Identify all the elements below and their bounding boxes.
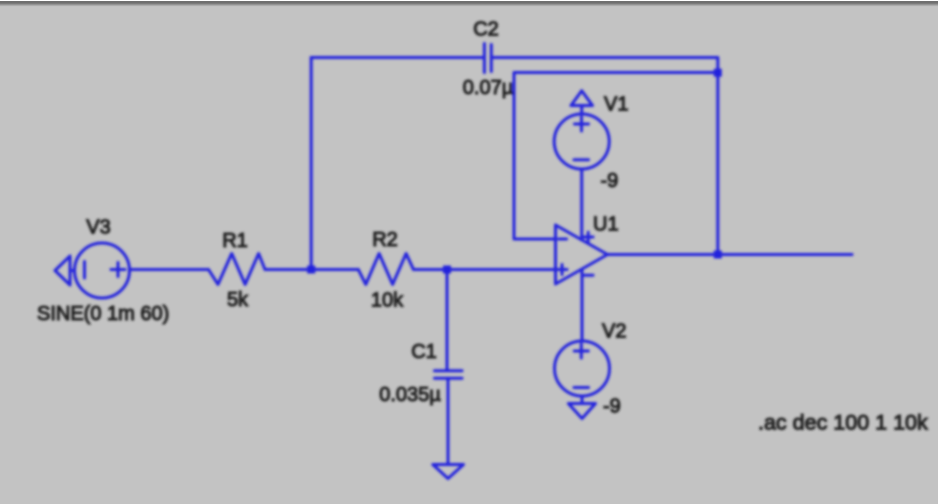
top window edge (0, 0, 938, 1)
feedback loop wires (to inverting input) (514, 73, 718, 240)
wire C2 to right vertical (491, 58, 718, 255)
ground (left of V3) (55, 256, 75, 285)
svg-text:-9: -9 (603, 396, 621, 418)
svg-text:R1: R1 (222, 230, 248, 252)
svg-text:U1: U1 (593, 214, 619, 236)
capacitor C1 (435, 371, 463, 379)
junction dots (307, 69, 722, 274)
svg-text:10k: 10k (371, 290, 404, 312)
svg-text:V1: V1 (604, 94, 628, 116)
wire riser to C2 left plate (311, 56, 484, 59)
wire R2 to op-amp (414, 268, 556, 271)
wire V1 to op-amp top (580, 169, 583, 240)
node dot (C2/feedback top right) (714, 69, 722, 77)
wire V3 to R1 (130, 268, 209, 271)
wire R1 to op-amp (through nodes) (265, 268, 358, 271)
wire C1 to ground (447, 378, 450, 464)
svg-text:5k: 5k (227, 289, 249, 311)
capacitor C2 (484, 44, 491, 73)
voltage source V3 (75, 243, 130, 298)
svg-text:-9: -9 (601, 170, 619, 192)
wire node to C1 (446, 270, 449, 371)
output wire (608, 253, 853, 256)
svg-text:0.035µ: 0.035µ (379, 384, 441, 406)
voltage source V2 (555, 341, 610, 396)
svg-text:R2: R2 (372, 229, 398, 251)
svg-text:SINE(0 1m 60): SINE(0 1m 60) (37, 303, 169, 325)
op-amp U1 (556, 225, 608, 284)
node dot (R1/R2/C2 riser) (307, 266, 315, 274)
ground below V2 (568, 396, 595, 419)
resistor R1 (209, 254, 266, 285)
svg-text:.ac dec 100 1 10k: .ac dec 100 1 10k (758, 411, 928, 435)
svg-text:V2: V2 (602, 321, 626, 343)
svg-text:C2: C2 (473, 19, 499, 41)
ground above V1 (rotated) (571, 91, 593, 114)
svg-text:V3: V3 (86, 217, 110, 239)
svg-text:C1: C1 (411, 341, 437, 363)
wire node to C2 (vertical riser) (310, 58, 313, 270)
svg-text:0.07µ: 0.07µ (463, 77, 514, 99)
voltage source V1 (554, 114, 609, 169)
wire op-amp bottom to V2 (581, 270, 584, 341)
node dot (R2/C1) (443, 266, 451, 274)
node dot (output) (714, 251, 722, 259)
ground below C1 (433, 465, 464, 479)
resistor R2 (358, 254, 413, 285)
